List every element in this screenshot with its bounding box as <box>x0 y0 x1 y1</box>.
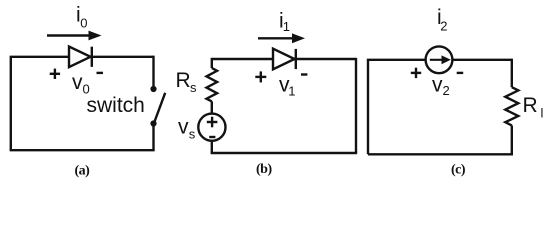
wire: (a) top right segment <box>92 56 154 58</box>
svg-text:(c): (c) <box>451 163 466 178</box>
svg-text:s: s <box>189 126 196 141</box>
svg-text:R: R <box>176 69 191 92</box>
wire: (a) right lower (from switch) <box>152 124 154 150</box>
resistor Rs zigzag <box>207 68 218 101</box>
svg-text:R: R <box>523 94 538 117</box>
svg-text:l: l <box>541 106 544 121</box>
wire: (b) left top stub <box>211 58 213 68</box>
arrow i1 shaft <box>258 37 294 39</box>
plus sign of v2 <box>411 72 421 74</box>
minus sign of v0 <box>97 72 104 74</box>
plus sign of v1 <box>255 76 266 78</box>
svg-text:0: 0 <box>80 16 87 31</box>
wire: Rs to vs source <box>211 101 213 114</box>
wire: (c) top right segment <box>452 59 512 61</box>
svg-text:v: v <box>72 71 83 94</box>
current source I circle <box>426 46 453 73</box>
diode D(a) cathode bar <box>91 47 93 67</box>
wire: (a) top left segment <box>10 56 70 58</box>
switch node upper dot <box>150 86 156 92</box>
wire: (c) right lower stub <box>511 125 513 155</box>
wire: (a) left side <box>10 57 12 150</box>
svg-text:v: v <box>178 115 189 138</box>
wire: (b) right side <box>355 58 357 153</box>
diode D(b) triangle <box>273 49 295 70</box>
wire: (a) bottom <box>10 149 155 151</box>
wire: (a) right upper (to switch) <box>152 56 154 88</box>
wire: (c) right upper stub <box>511 59 513 88</box>
arrowhead i0 <box>89 31 102 41</box>
minus sign of v2 <box>457 72 464 74</box>
diode D(b) cathode bar <box>295 49 297 69</box>
minus sign of v1 <box>301 73 307 75</box>
wire: (b) top right segment <box>296 58 356 60</box>
svg-text:switch: switch <box>87 94 145 117</box>
svg-text:v: v <box>432 73 443 96</box>
wire: (b) bottom <box>211 152 358 154</box>
svg-text:(a): (a) <box>75 164 91 179</box>
wire: (c) left side <box>367 60 369 155</box>
svg-text:1: 1 <box>283 19 290 34</box>
wire: vs to (b) bottom <box>211 141 213 153</box>
minus sign inside vs <box>209 136 215 138</box>
wire: (b) top left segment <box>212 58 274 60</box>
svg-text:2: 2 <box>440 19 447 34</box>
switch blade <box>154 93 165 123</box>
svg-text:2: 2 <box>443 83 450 98</box>
arrow inside current source <box>430 59 443 61</box>
wire: (c) top left segment <box>367 59 426 61</box>
arrow i0 shaft <box>47 34 90 36</box>
svg-text:(b): (b) <box>256 162 272 177</box>
voltage source vs circle <box>198 114 225 141</box>
svg-text:s: s <box>190 80 197 95</box>
resistor Rl zigzag <box>505 87 518 125</box>
wire: (c) bottom <box>368 153 513 155</box>
diode D(a) triangle <box>69 47 91 68</box>
switch node lower dot <box>150 120 156 126</box>
arrowhead i1 <box>292 33 305 43</box>
plus sign inside vs <box>207 121 218 123</box>
plus sign of v0 <box>50 73 60 75</box>
svg-text:1: 1 <box>288 84 295 99</box>
